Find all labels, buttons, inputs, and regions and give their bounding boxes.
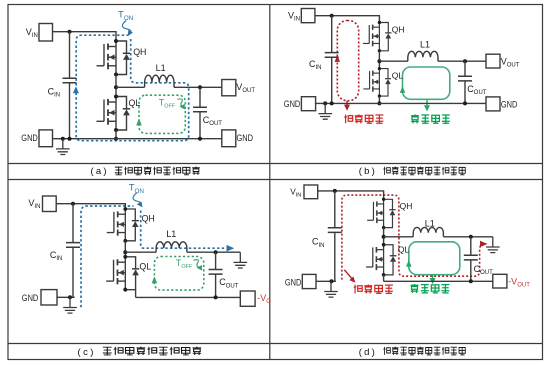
node Vin/Cin (d) — [333, 189, 337, 193]
red arrowhead to output ground (d) — [480, 241, 488, 247]
svg-text:QL: QL — [398, 244, 410, 254]
label switching current (b) — [344, 114, 383, 123]
green arrow on Toff loop (a) — [136, 119, 142, 126]
svg-text:(d): (d) — [359, 347, 377, 358]
Vin terminal (b) — [301, 9, 315, 23]
red pointer arrow to label (b) — [346, 101, 348, 105]
GND terminal right (b) — [486, 97, 500, 111]
Vin terminal (c) — [43, 196, 57, 212]
Vout terminal (a) — [222, 80, 236, 96]
svg-text:QL: QL — [129, 98, 141, 108]
GND terminal left (b) — [301, 97, 315, 111]
blue Ton current loop (a) — [76, 35, 189, 141]
blue Ton input path (c) — [81, 206, 134, 307]
red arrow on loop left (b) — [335, 55, 340, 62]
wire QH source to switch node (a) — [115, 75, 117, 97]
svg-text:(a): (a) — [91, 166, 109, 177]
capacitor Cout (b) — [458, 76, 472, 81]
transistor QL (b) — [363, 67, 391, 98]
-Vo terminal (c) — [240, 291, 255, 306]
output rail wire (d) — [384, 280, 493, 282]
node switch junction (a) — [114, 85, 118, 89]
node Cout bottom (d) — [469, 279, 473, 283]
capacitor Cin (d) — [328, 228, 342, 233]
green continuous current loop (d) — [409, 242, 460, 275]
capacitor Cout (d) — [464, 255, 478, 260]
ground symbol output (c) — [234, 252, 248, 268]
GND terminal (c) — [41, 290, 57, 305]
node Cout top (b) — [463, 59, 467, 63]
label continuous current (b) — [411, 114, 450, 123]
ground symbol output (d) — [486, 237, 500, 253]
wire Vin to QH drain (b) — [315, 16, 380, 23]
svg-text:GND: GND — [501, 100, 518, 110]
node Cout bottom (a) — [198, 137, 202, 141]
green pointer arrow to label (d) — [432, 275, 434, 279]
ground symbol (a) — [56, 139, 70, 155]
wire switch node to L1 (b) — [379, 60, 407, 62]
caption (d) — [359, 347, 465, 358]
wire Cin top (b) — [331, 16, 333, 53]
wire Cin top (c) — [72, 204, 74, 243]
wire Vin to QH drain (d) — [318, 191, 384, 199]
label switching current (d) — [354, 285, 393, 294]
svg-text:(b): (b) — [359, 166, 377, 177]
capacitor Cout (a) — [193, 107, 207, 112]
wire Vin to QH drain (c) — [56, 204, 125, 209]
blue arrow on loop left side (a) — [73, 86, 79, 93]
transistor QL (d) — [366, 243, 396, 277]
wire Cin bottom (a) — [69, 83, 71, 139]
node Cin bottom (b) — [330, 101, 334, 105]
node switch junction (c) — [123, 250, 127, 254]
wire Cin bottom (b) — [331, 57, 333, 103]
wire switch node to L1 (d) — [384, 236, 414, 238]
red pointer arrow to label (d) — [344, 270, 352, 279]
capacitor Cout (c) — [209, 270, 223, 275]
svg-text:QL: QL — [392, 71, 404, 81]
node QL ground rail (b) — [377, 101, 381, 105]
svg-text:L1: L1 — [166, 229, 176, 239]
node Vin/Cin (a) — [68, 30, 72, 34]
ground symbol (b) — [318, 103, 332, 119]
wire Cin bottom (c) — [72, 247, 74, 297]
wire Cin bottom (d) — [334, 232, 336, 281]
GND terminal right (a) — [222, 130, 236, 147]
wire switch node to L1 (c) — [125, 251, 156, 253]
Ton squiggle pointer (c) — [133, 193, 141, 206]
ground rail wire (b) — [316, 102, 486, 104]
wire QL source to output rail (d) — [383, 275, 385, 281]
GND terminal (d) — [302, 274, 316, 288]
node Cout top (d) — [469, 235, 473, 239]
-Vout terminal (d) — [493, 274, 507, 288]
wire L1 to output ground (c) — [187, 251, 240, 253]
node ground symbol (a) — [61, 137, 65, 141]
Toff squiggle pointer (c) — [194, 260, 200, 267]
wire Cout (d) — [470, 237, 472, 281]
wire QH source to switch node (c) — [124, 241, 126, 257]
green arrow on loop left (d) — [406, 260, 411, 267]
transistor QH (d) — [367, 198, 395, 230]
transistor QL (a) — [97, 95, 131, 133]
wire Cout (c) — [215, 252, 217, 297]
wire Cout (a) — [199, 87, 201, 138]
svg-text:QH: QH — [400, 201, 413, 211]
wire GND to Cin (d) — [316, 280, 336, 282]
wire L1 to Vout (a) — [174, 86, 222, 88]
wire Cout (b) — [464, 61, 466, 103]
green arrow on loop left (b) — [400, 86, 405, 93]
inductor L1 (a) — [145, 75, 174, 87]
wire Cin top (d) — [334, 191, 336, 228]
blue arrow on loop top right (a) — [128, 30, 133, 36]
wire Vin to QH drain (a) — [53, 32, 117, 41]
svg-text:GND: GND — [284, 99, 301, 109]
capacitor Cin (c) — [66, 243, 80, 248]
node Cin bottom (a) — [68, 137, 72, 141]
ground symbol input (c) — [63, 297, 77, 313]
green Toff current loop (c) — [154, 257, 203, 291]
Toff squiggle pointer (a) — [178, 99, 184, 106]
capacitor Cin (b) — [325, 53, 339, 58]
wire QL source to ground rail (a) — [115, 130, 117, 139]
GND terminal left (a) — [39, 130, 53, 147]
node Cout top (c) — [214, 250, 218, 254]
wire switch node to L1 (a) — [116, 86, 145, 88]
svg-text:L1: L1 — [425, 218, 435, 228]
svg-text:GND: GND — [237, 133, 254, 143]
green pointer arrow to label (b) — [426, 99, 428, 105]
node QL ground rail (a) — [114, 137, 118, 141]
Vin terminal (a) — [39, 24, 53, 42]
svg-text:GND: GND — [22, 293, 39, 303]
svg-text:GND: GND — [285, 277, 302, 287]
node switch junction (b) — [377, 59, 381, 63]
green Toff current loop (a) — [139, 95, 185, 133]
wire QH source to switch node (d) — [383, 228, 385, 245]
Vin terminal (d) — [304, 185, 318, 199]
svg-text:L1: L1 — [156, 63, 166, 73]
node input ground (c) — [68, 295, 72, 299]
svg-text:GND: GND — [21, 133, 38, 143]
node Cout bottom (c) — [214, 295, 218, 299]
blue arrowhead to output (c) — [227, 245, 235, 252]
svg-text:QH: QH — [392, 24, 405, 34]
svg-text:L1: L1 — [420, 40, 430, 50]
svg-text:QH: QH — [142, 214, 155, 224]
red switching current loop (b) — [337, 21, 358, 101]
transistor QH (c) — [107, 207, 139, 243]
node Cout bottom (b) — [463, 101, 467, 105]
red switching current path (d) — [342, 195, 482, 280]
label continuous current (d) — [411, 284, 450, 293]
caption (a) — [91, 166, 200, 177]
wire GND to Cin (c) — [57, 296, 75, 298]
inductor L1 (d) — [413, 227, 443, 236]
node input ground (d) — [330, 279, 334, 283]
wire QL source to ground rail (b) — [378, 96, 380, 103]
inductor L1 (b) — [408, 51, 438, 61]
ground rail wire (a) — [53, 138, 223, 140]
ground symbol input (d) — [324, 281, 338, 297]
node Vin/Cin (b) — [330, 14, 334, 18]
svg-text:(c): (c) — [78, 347, 96, 358]
wire Cin top (a) — [69, 32, 71, 78]
green continuous current loop (b) — [403, 67, 450, 99]
node Cout top (a) — [198, 85, 202, 89]
caption (b) — [359, 166, 465, 177]
output rail wire (c) — [136, 296, 241, 298]
green arrow on Toff loop (c) — [152, 276, 158, 283]
caption (c) — [78, 347, 202, 358]
svg-text:QH: QH — [133, 47, 146, 57]
wire QL diode to output rail (c) — [135, 290, 137, 298]
capacitor Cin (a) — [63, 78, 77, 83]
svg-text:QL: QL — [139, 261, 151, 271]
transistor QH (a) — [97, 39, 131, 77]
Vout terminal (b) — [486, 54, 500, 68]
node switch junction (d) — [382, 235, 386, 239]
wire L1 to Vout (b) — [438, 60, 486, 62]
Ton squiggle pointer (a) — [122, 21, 130, 33]
blue Ton output path (c) — [141, 211, 226, 249]
inductor L1 (c) — [156, 242, 187, 252]
blue arrow at Ton corner (c) — [137, 201, 143, 207]
wire L1 to output ground (d) — [443, 236, 492, 238]
transistor QH (b) — [363, 21, 391, 53]
node ground symbol (b) — [323, 101, 327, 105]
transistor QL (c) — [106, 255, 139, 292]
wire QH source to switch node (b) — [378, 51, 380, 69]
node Vin/Cin (c) — [71, 202, 75, 206]
